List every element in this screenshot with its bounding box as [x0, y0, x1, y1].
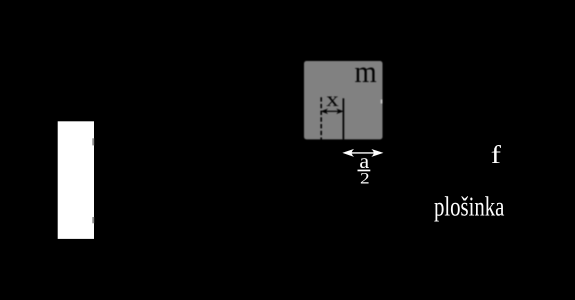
svg-text:m: m	[355, 54, 377, 89]
svg-text:a: a	[359, 151, 369, 173]
svg-text:f: f	[491, 142, 502, 169]
svg-text:2: 2	[360, 171, 370, 188]
svg-text:x: x	[326, 87, 339, 111]
svg-text:plošinka: plošinka	[434, 193, 505, 222]
